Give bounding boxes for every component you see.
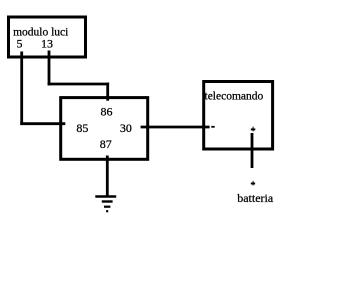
wire pin 5 horizontal to relay pin 85 [20, 122, 65, 125]
wire pin 5 vertical [20, 52, 23, 126]
battery plus label [251, 183, 255, 185]
svg-text:87: 87 [100, 137, 112, 151]
ground dot [106, 210, 108, 212]
wire down to relay pin 86 [106, 83, 109, 101]
svg-text:batteria: batteria [237, 191, 274, 205]
ground bar 3 [104, 206, 110, 208]
remote box U2 telecomando [204, 82, 273, 150]
svg-text:13: 13 [41, 37, 53, 51]
minus terminal label [211, 126, 214, 128]
wire plus terminal to battery [251, 133, 254, 168]
ground bar 1 [95, 195, 116, 197]
svg-text:86: 86 [101, 105, 113, 119]
wire pin 13 horizontal [48, 83, 110, 86]
svg-text:85: 85 [76, 121, 88, 135]
svg-text:5: 5 [17, 37, 23, 51]
wire pin 30 to telecomando minus [141, 126, 210, 129]
ground bar 2 [102, 200, 113, 202]
wire pin 87 to ground [106, 156, 109, 197]
svg-text:30: 30 [120, 121, 132, 135]
svg-text:telecomando: telecomando [205, 91, 264, 103]
module box U1 modulo luci [9, 17, 86, 57]
wire pin 13 vertical [48, 51, 51, 86]
relay box K1 [61, 98, 148, 160]
plus terminal label [251, 128, 256, 130]
